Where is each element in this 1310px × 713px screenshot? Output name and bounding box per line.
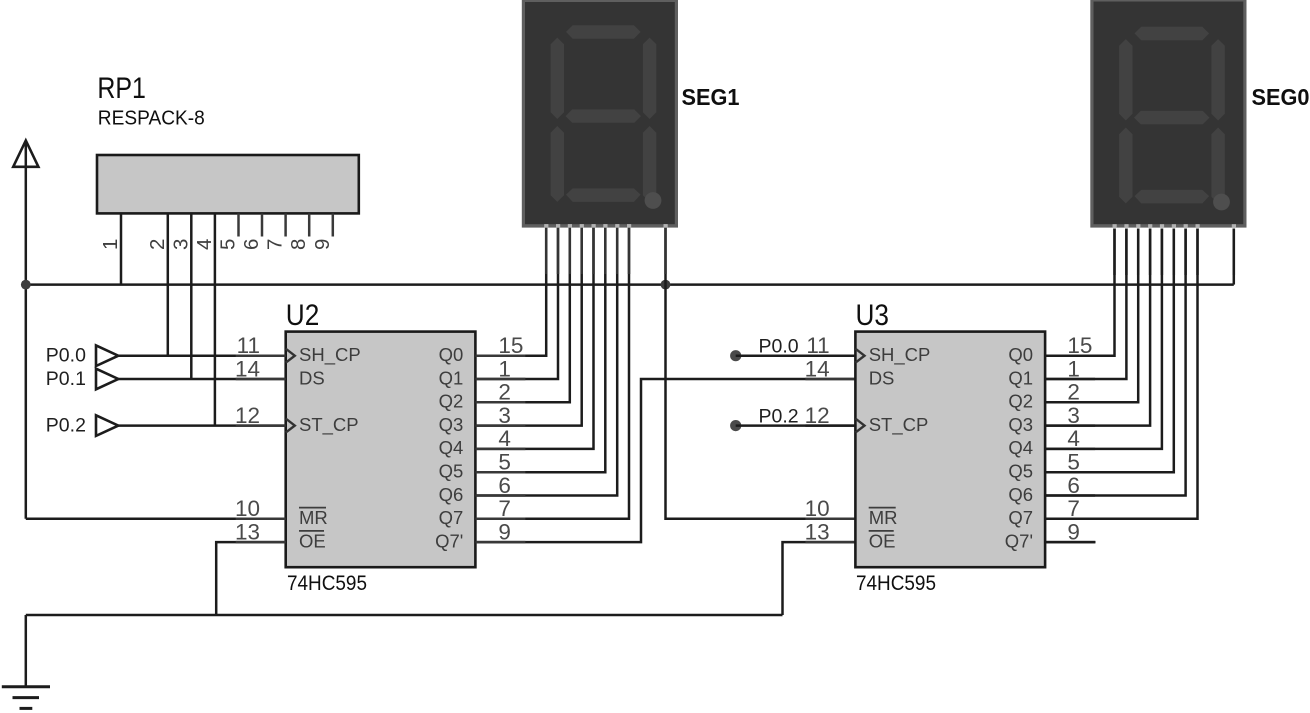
U3 pin name Q7' [1005, 530, 1033, 551]
svg-text:ST_CP: ST_CP [299, 414, 359, 436]
SEG0 label [1252, 84, 1310, 110]
svg-text:5: 5 [498, 450, 511, 475]
terminal dot P0.2 at U3 [730, 420, 741, 431]
RP1 pin 4 wire to P0.2 net [214, 213, 217, 425]
RP1 pin 3 wire to P0.1 net [190, 213, 193, 379]
svg-text:Q7: Q7 [439, 507, 464, 528]
U3 pin number 12 [805, 403, 830, 428]
svg-text:SH_CP: SH_CP [299, 344, 361, 366]
wire U3 Q6 to SEG0 pin g [1045, 229, 1186, 496]
RESPACK-8 value label [98, 108, 205, 130]
label P0.2 [46, 415, 86, 437]
svg-text:SEG1: SEG1 [682, 84, 740, 110]
svg-text:14: 14 [235, 356, 260, 381]
svg-text:5: 5 [217, 239, 240, 250]
U3 clock chevron ST_CP [855, 419, 864, 433]
svg-text:4: 4 [498, 426, 511, 451]
svg-text:SH_CP: SH_CP [869, 344, 931, 366]
svg-text:7: 7 [1067, 496, 1080, 521]
junction dot at power rail left [21, 280, 31, 290]
U2 pin number 11 [237, 333, 260, 358]
U2 value 74HC595 [287, 571, 367, 595]
label P0.2 at U3 [759, 406, 799, 428]
svg-text:Q5: Q5 [439, 461, 464, 482]
U3 pin name SH_CP [869, 344, 931, 366]
wire U3 Q7 to SEG0 pin dp [1045, 229, 1197, 519]
U2 clock chevron ST_CP [286, 419, 295, 433]
U2 pin number 12 [235, 403, 260, 428]
op-amp U3 body [855, 332, 1045, 568]
svg-text:Q7': Q7' [1005, 530, 1033, 551]
RP1 pin number 8 [287, 239, 310, 250]
U3 pin number 2 [1067, 380, 1080, 405]
RP1 pin number 7 [264, 239, 287, 250]
RP1 pin number 6 [240, 239, 263, 250]
wire U2 Q7' to U3 DS [475, 379, 855, 542]
svg-text:Q1: Q1 [1008, 367, 1033, 388]
wire ground rail horizontal [26, 614, 783, 617]
svg-text:Q5: Q5 [1008, 461, 1033, 482]
svg-text:1: 1 [498, 356, 511, 381]
wire U2 Q3 to SEG1 pin d [475, 227, 581, 426]
SEG1 label [682, 84, 740, 110]
svg-text:2: 2 [146, 239, 169, 250]
svg-text:13: 13 [235, 519, 260, 544]
U2 pin number 1 [498, 356, 511, 381]
wire U3 Q1 to SEG0 pin b [1045, 229, 1126, 380]
pin stubs SEG0 [1115, 229, 1234, 276]
U3 pin name Q2 [1008, 391, 1033, 412]
U3 pin number 1 [1067, 356, 1080, 381]
svg-text:3: 3 [1067, 403, 1080, 428]
svg-text:OE: OE [869, 530, 896, 551]
wire SEG1 common to bus [664, 227, 667, 285]
RP1 pin 6 stub [261, 213, 264, 236]
op-amp U2 body [286, 332, 476, 568]
U2 pin name DS [299, 367, 325, 388]
svg-text:ST_CP: ST_CP [869, 414, 929, 436]
RP1 pin number 9 [311, 239, 334, 250]
U2 pin name SH_CP [299, 344, 361, 366]
U2 pin number 4 [498, 426, 511, 451]
U2 pin name Q7' [435, 530, 463, 551]
pin stubs SEG1 [546, 228, 665, 275]
svg-text:MR: MR [299, 507, 328, 528]
svg-text:74HC595: 74HC595 [856, 571, 936, 595]
U3 pin number 3 [1067, 403, 1080, 428]
U3 pin number 5 [1067, 450, 1080, 475]
wire U2 Q4 to SEG1 pin e [475, 227, 593, 449]
U3 pin number 4 [1067, 426, 1080, 451]
svg-text:MR: MR [869, 507, 898, 528]
svg-text:1: 1 [1067, 356, 1080, 381]
svg-text:74HC595: 74HC595 [287, 571, 367, 595]
U3 pin name Q4 [1008, 437, 1033, 458]
svg-text:Q1: Q1 [439, 367, 464, 388]
wire P0.2 to U2 ST_CP [118, 424, 285, 427]
svg-text:RP1: RP1 [97, 72, 145, 105]
svg-text:Q6: Q6 [1008, 484, 1033, 505]
seven segment display SEG0 [1090, 0, 1246, 228]
wire U3 Q7' stub [1045, 541, 1095, 544]
U3 pin name Q7 [1008, 507, 1033, 528]
buffer P0.0 [96, 345, 118, 366]
U3 pin number 9 [1067, 519, 1080, 544]
U2 pin name ST_CP [299, 414, 359, 436]
U3 pin name Q1 [1008, 367, 1033, 388]
svg-text:6: 6 [1067, 473, 1080, 498]
svg-text:7: 7 [264, 239, 287, 250]
wire U2 Q7 to SEG1 pin dp [475, 227, 629, 519]
seven segment display SEG1 [522, 0, 678, 228]
svg-text:OE: OE [299, 530, 326, 551]
U2 pin name Q7 [439, 507, 464, 528]
U2 pin number 14 [235, 356, 260, 381]
U3 pin number 7 [1067, 496, 1080, 521]
svg-text:Q6: Q6 [439, 484, 464, 505]
buffer P0.2 [96, 415, 118, 436]
RP1 pin number 3 [169, 239, 192, 250]
wire U3 Q3 to SEG0 pin d [1045, 229, 1150, 426]
RP1 pin 5 stub [237, 213, 240, 236]
U3 label [856, 299, 890, 332]
wire U2 Q2 to SEG1 pin c [475, 227, 569, 402]
wire P0.0 to U3 SH_CP [736, 354, 856, 357]
svg-text:P0.0: P0.0 [46, 345, 86, 367]
svg-text:Q7: Q7 [1008, 507, 1033, 528]
svg-text:P0.2: P0.2 [46, 415, 86, 437]
svg-text:11: 11 [806, 333, 829, 358]
wire power bus horizontal [26, 283, 1234, 286]
U2 pin name Q0 [439, 344, 464, 365]
RP1 pin 7 stub [284, 213, 287, 236]
svg-text:Q4: Q4 [439, 437, 464, 458]
U3 pin name Q6 [1008, 484, 1033, 505]
RP1 pin 1 wire to power bus [120, 213, 123, 284]
U3 pin name Q0 [1008, 344, 1033, 365]
svg-text:Q0: Q0 [1008, 344, 1033, 365]
wire U3 OE to ground rail [783, 542, 856, 615]
U3 pin number 6 [1067, 473, 1080, 498]
pin stubs U2 right [475, 356, 525, 542]
svg-text:14: 14 [805, 356, 830, 381]
svg-text:3: 3 [498, 403, 511, 428]
RP1 pin number 2 [146, 239, 169, 250]
U2 pin name Q1 [439, 367, 464, 388]
U2 pin number 5 [498, 450, 511, 475]
svg-text:Q7': Q7' [435, 530, 463, 551]
svg-text:Q2: Q2 [1008, 391, 1033, 412]
U3 pin number 11 [806, 333, 829, 358]
svg-text:9: 9 [498, 519, 511, 544]
U3 pin name Q5 [1008, 461, 1033, 482]
U2 pin number 6 [498, 473, 511, 498]
svg-text:P0.2: P0.2 [759, 406, 799, 428]
U2 pin number 7 [498, 496, 511, 521]
U2 pin name Q4 [439, 437, 464, 458]
svg-text:3: 3 [169, 239, 192, 250]
wire U3 Q4 to SEG0 pin e [1045, 229, 1162, 449]
svg-text:10: 10 [235, 496, 260, 521]
wire P0.2 to U3 ST_CP [736, 424, 856, 427]
pin stubs U3 right [1045, 356, 1095, 542]
svg-text:12: 12 [805, 403, 830, 428]
U2 pin number 15 [498, 333, 523, 358]
wire P0.1 to U2 DS [118, 378, 285, 381]
svg-text:P0.1: P0.1 [46, 368, 86, 390]
RP1 label [97, 72, 145, 105]
svg-text:Q0: Q0 [439, 344, 464, 365]
svg-text:Q3: Q3 [1008, 414, 1033, 435]
U2 pin name Q3 [439, 414, 464, 435]
svg-text:15: 15 [1067, 333, 1092, 358]
wire U3 Q2 to SEG0 pin c [1045, 229, 1138, 403]
svg-text:9: 9 [311, 239, 334, 250]
svg-text:Q3: Q3 [439, 414, 464, 435]
wire U3 Q5 to SEG0 pin f [1045, 229, 1174, 473]
U3 pin number 14 [805, 356, 830, 381]
U2 pin name Q6 [439, 484, 464, 505]
U2 pin number 13 [235, 519, 260, 544]
RP1 pin 2 wire to P0.0 net [167, 213, 170, 355]
svg-text:6: 6 [240, 239, 263, 250]
svg-text:Q4: Q4 [1008, 437, 1033, 458]
svg-text:13: 13 [805, 519, 830, 544]
label P0.0 [46, 345, 86, 367]
pin stubs U3 left [805, 356, 855, 542]
svg-text:15: 15 [498, 333, 523, 358]
svg-text:SEG0: SEG0 [1252, 84, 1310, 110]
power symbol VCC [13, 141, 38, 519]
svg-text:DS: DS [299, 367, 325, 388]
U2 label [286, 299, 320, 332]
pin stubs U2 left [236, 356, 286, 542]
U2 pin number 2 [498, 380, 511, 405]
junction dot at SEG1 common [661, 280, 671, 290]
RP1 pin 9 stub [332, 213, 335, 236]
RP1 pin 8 stub [308, 213, 311, 236]
wire P0.0 to U2 SH_CP [118, 354, 285, 357]
U3 pin name Q3 [1008, 414, 1033, 435]
U2 pin name MR with overbar [299, 507, 328, 528]
RP1 pin number 1 [99, 239, 122, 250]
wire SEG0 common to bus [1233, 229, 1236, 285]
svg-text:11: 11 [237, 333, 260, 358]
U2 clock chevron SH_CP [286, 349, 295, 363]
svg-text:12: 12 [235, 403, 260, 428]
svg-text:8: 8 [287, 239, 310, 250]
U2 pin number 3 [498, 403, 511, 428]
svg-text:1: 1 [99, 239, 122, 250]
wire U2 OE to ground rail [216, 542, 286, 615]
U3 pin name MR with overbar [869, 507, 898, 528]
U3 pin number 10 [805, 496, 830, 521]
label P0.1 [46, 368, 86, 390]
terminal dot P0.0 at U3 [730, 350, 741, 361]
ground [2, 615, 50, 708]
wire U2 Q0 to SEG1 pin a [475, 227, 546, 356]
U3 value 74HC595 [856, 571, 936, 595]
U3 pin name ST_CP [869, 414, 929, 436]
svg-text:DS: DS [869, 367, 895, 388]
wire U3 Q0 to SEG0 pin a [1045, 229, 1114, 356]
label P0.0 at U3 [759, 336, 799, 358]
svg-text:4: 4 [1067, 426, 1080, 451]
svg-text:6: 6 [498, 473, 511, 498]
svg-text:U3: U3 [856, 299, 890, 332]
U3 pin name OE with overbar [869, 530, 896, 551]
RP1 pin number 4 [193, 239, 216, 250]
buffer P0.1 [96, 369, 118, 390]
svg-text:2: 2 [1067, 380, 1080, 405]
svg-text:9: 9 [1067, 519, 1080, 544]
U3 pin number 13 [805, 519, 830, 544]
U2 pin name Q2 [439, 391, 464, 412]
svg-text:RESPACK-8: RESPACK-8 [98, 108, 205, 130]
wire U2 Q5 to SEG1 pin f [475, 227, 605, 472]
U3 pin name DS [869, 367, 895, 388]
svg-text:7: 7 [498, 496, 511, 521]
U2 pin name Q5 [439, 461, 464, 482]
resistor pack RP1 [97, 155, 359, 213]
svg-text:Q2: Q2 [439, 391, 464, 412]
U2 pin name OE with overbar [299, 530, 326, 551]
svg-text:U2: U2 [286, 299, 320, 332]
RP1 pin number 5 [217, 239, 240, 250]
U3 pin number 15 [1067, 333, 1092, 358]
wire U3 MR to power rail via SEG1 common node [666, 285, 856, 519]
svg-text:10: 10 [805, 496, 830, 521]
svg-text:5: 5 [1067, 450, 1080, 475]
wire U2 Q1 to SEG1 pin b [475, 227, 558, 379]
svg-text:2: 2 [498, 380, 511, 405]
U3 clock chevron SH_CP [855, 349, 864, 363]
wire U2 Q6 to SEG1 pin g [475, 227, 617, 496]
svg-text:P0.0: P0.0 [759, 336, 799, 358]
wire U2 MR to power rail [26, 518, 286, 521]
U2 pin number 10 [235, 496, 260, 521]
U2 pin number 9 [498, 519, 511, 544]
svg-text:4: 4 [193, 239, 216, 250]
